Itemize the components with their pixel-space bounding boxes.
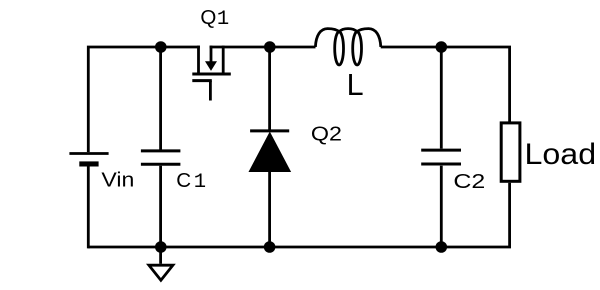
- svg-text:Load: Load: [525, 138, 597, 171]
- wire: Load bottom to bottom-right corner and bottom rail to Vin: [88, 183, 511, 247]
- junction: switch node top (Q1 source / Q2 cathode / L): [264, 41, 276, 53]
- capacitor C2: [421, 150, 461, 164]
- inductor L: [315, 29, 380, 65]
- diode Q2 (freewheeling, anode at bottom): [249, 131, 290, 172]
- svg-text:Q1: Q1: [200, 6, 229, 31]
- wire: inductor right end to top-right corner and down to Load: [381, 46, 510, 122]
- junction: ground rail at C2 bottom: [436, 241, 448, 253]
- svg-text:Q2: Q2: [311, 122, 342, 145]
- battery Vin: [69, 154, 108, 167]
- svg-text:L: L: [347, 68, 364, 102]
- junction: ground rail at Q2 anode: [264, 241, 276, 253]
- svg-text:C2: C2: [453, 170, 485, 193]
- wire: Vin negative lead down to bottom rail: [87, 166, 90, 248]
- resistor Load: [501, 123, 520, 181]
- junction: ground node at C1 bottom: [155, 241, 167, 253]
- junction: Vin/C1 top node: [155, 41, 167, 53]
- ground: [149, 247, 173, 280]
- junction: output node top (L / C2 / Load): [436, 41, 448, 53]
- wire: C1 top lead: [159, 47, 162, 150]
- wire: C2 bottom lead: [440, 166, 443, 247]
- wire: C1 bottom lead: [159, 166, 162, 247]
- wire: Q1 source to inductor left end (switch node rail): [210, 46, 316, 49]
- wire: Q2 cathode lead from switch node: [268, 47, 271, 130]
- wire: C2 top lead: [440, 47, 443, 149]
- capacitor C1: [141, 151, 181, 164]
- wire: Vin positive lead up and top rail to Q1 drain: [87, 46, 200, 153]
- svg-text:C1: C1: [176, 169, 206, 194]
- wire: Q2 anode lead to bottom rail: [268, 172, 271, 248]
- transistor Q1 (N-MOSFET, high-side switch): [192, 46, 231, 101]
- svg-text:Vin: Vin: [101, 169, 134, 192]
